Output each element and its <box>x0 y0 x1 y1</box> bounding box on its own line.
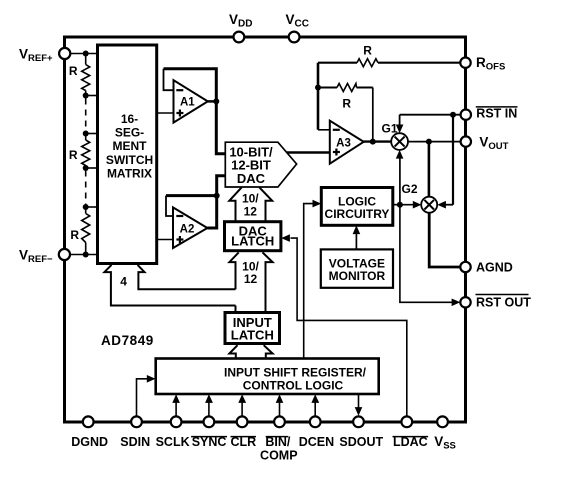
bus arrow matrix 4 MSBs <box>104 265 235 306</box>
resistor R (middle) <box>82 140 90 166</box>
wire A2 + input <box>157 239 173 241</box>
wire G1 to VOUT <box>408 141 461 143</box>
outer boundary box <box>65 37 466 422</box>
svg-text:DCEN: DCEN <box>299 435 334 449</box>
wire SCLK arrow <box>172 394 180 416</box>
wire CLR arrow <box>238 394 246 416</box>
node A3 output <box>370 139 376 145</box>
wire SDOUT arrow <box>355 394 363 416</box>
node dot <box>83 204 89 210</box>
pin VOUT <box>461 136 471 146</box>
svg-text:G1: G1 <box>381 122 397 136</box>
wire DCEN arrow <box>311 394 319 416</box>
svg-text:RST OUT: RST OUT <box>476 295 531 309</box>
svg-text:A1: A1 <box>180 97 195 109</box>
bus arrow DAC latch to DAC (10/12) <box>229 187 272 221</box>
wire logic to G2 and branches <box>393 150 422 209</box>
wire DAC output to A3 <box>287 151 330 154</box>
svg-text:R: R <box>69 148 78 162</box>
node dot bottom of ladder <box>83 252 89 258</box>
svg-text:LATCH: LATCH <box>231 233 274 248</box>
wire ladder stub <box>86 95 98 97</box>
resistor R (top) <box>82 65 90 91</box>
wire voltage monitor to logic <box>353 225 361 249</box>
svg-text:AGND: AGND <box>476 261 513 275</box>
svg-text:LATCH: LATCH <box>231 327 274 342</box>
pin DCEN <box>310 416 321 427</box>
pin AGND <box>460 262 470 272</box>
label LDAC <box>393 435 429 449</box>
pin VDD <box>234 32 245 43</box>
svg-text:R: R <box>342 97 351 111</box>
dashed ladder segment <box>85 99 87 131</box>
pin BIN/COMP <box>274 416 285 427</box>
svg-text:10/: 10/ <box>242 192 259 206</box>
input latch box <box>225 313 280 344</box>
label RST OUT <box>476 295 532 310</box>
wire VREF+ to matrix <box>65 53 98 55</box>
pin ROFS <box>460 58 470 68</box>
svg-text:R: R <box>363 44 372 58</box>
pin VSS <box>437 416 448 427</box>
svg-text:DGND: DGND <box>71 435 108 449</box>
node dot top of ladder <box>83 51 89 57</box>
wire VOUT node down to G2 <box>428 142 431 197</box>
svg-text:MONITOR: MONITOR <box>329 269 386 283</box>
multiplier G2 <box>401 182 437 213</box>
pin SDOUT <box>353 416 364 427</box>
svg-text:MENT: MENT <box>113 139 148 153</box>
label SYNC <box>191 435 227 449</box>
wire A2 feedback loop <box>166 194 217 197</box>
svg-text:SWITCH: SWITCH <box>106 153 153 167</box>
pin VCC <box>289 32 300 43</box>
svg-text:DAC: DAC <box>237 171 266 186</box>
wire A3 feedback vertical <box>317 63 320 130</box>
resistor R (bottom) <box>82 214 90 243</box>
wire A2 output <box>207 176 225 228</box>
op-amp A1 <box>174 80 208 122</box>
pin RST OUT <box>460 297 470 307</box>
svg-text:MATRIX: MATRIX <box>107 166 152 180</box>
pin DGND <box>83 416 94 427</box>
op-amp A2 <box>173 207 207 248</box>
svg-text:COMP: COMP <box>260 448 298 462</box>
voltage monitor box <box>321 249 393 287</box>
svg-text:SDOUT: SDOUT <box>339 435 383 449</box>
wire G2 to AGND <box>429 213 460 268</box>
label BIN/ <box>265 435 291 449</box>
16-segment switch matrix box <box>98 45 157 264</box>
input shift register / control logic box <box>156 359 379 395</box>
label CLR <box>230 435 256 449</box>
svg-text:CONTROL LOGIC: CONTROL LOGIC <box>243 379 344 393</box>
resistor R to ROFS <box>318 44 460 67</box>
pin RST IN <box>461 110 471 120</box>
wire RST IN net <box>396 112 461 209</box>
resistor R feedback <box>318 84 373 142</box>
wire VREF- to matrix <box>64 254 97 256</box>
wire shift register to logic circuitry <box>304 200 322 359</box>
svg-text:A2: A2 <box>180 224 195 236</box>
node A1 output <box>213 98 219 104</box>
wire A3 - input <box>318 129 330 131</box>
pin VREF- <box>59 249 70 260</box>
node VOUT branch <box>426 139 432 145</box>
wire A1 + input <box>157 112 174 114</box>
wire A3 output <box>364 140 392 142</box>
bus arrow input latch to DAC latch (10/12) <box>229 252 272 312</box>
label RST IN <box>476 106 518 120</box>
node A2 output <box>214 193 220 199</box>
svg-text:RST IN: RST IN <box>476 106 517 120</box>
wire A1 output <box>208 100 217 103</box>
wire ladder stub <box>86 167 98 169</box>
svg-text:R: R <box>69 64 78 78</box>
node dot <box>83 131 89 137</box>
svg-text:SDIN: SDIN <box>120 435 150 449</box>
pin SCLK <box>171 416 182 427</box>
wire LDAC to DAC latch <box>281 234 407 416</box>
svg-text:16-: 16- <box>121 112 138 126</box>
DAC latch box <box>225 222 281 251</box>
DAC pentagon 10-bit/12-bit <box>225 142 296 187</box>
multiplier G1 <box>381 122 408 151</box>
node dot <box>83 165 89 171</box>
wire A1 feedback loop <box>164 69 174 91</box>
wire ladder stub <box>86 133 98 135</box>
svg-text:4: 4 <box>120 275 127 289</box>
bus arrow shift register to input latch <box>229 345 272 358</box>
svg-text:A3: A3 <box>336 138 351 150</box>
node dot <box>83 93 89 99</box>
svg-text:G2: G2 <box>401 182 417 196</box>
node feedback <box>315 85 321 91</box>
wire SDIN to shift register <box>137 375 156 416</box>
svg-text:SEG-: SEG- <box>115 126 144 140</box>
pin VREF+ <box>59 48 70 59</box>
svg-text:SCLK: SCLK <box>156 435 190 449</box>
resistor ladder vertical wires <box>85 54 87 255</box>
dashed ladder segment <box>85 171 87 205</box>
svg-text:R: R <box>70 228 79 242</box>
svg-text:12: 12 <box>244 272 258 286</box>
wire ladder stub <box>86 206 98 208</box>
pin LDAC <box>401 416 412 427</box>
svg-text:INPUT SHIFT REGISTER/: INPUT SHIFT REGISTER/ <box>224 365 367 379</box>
pin CLR <box>237 416 248 427</box>
pin SDIN <box>131 416 142 427</box>
svg-text:12: 12 <box>244 205 258 219</box>
svg-text:CIRCUITRY: CIRCUITRY <box>325 207 390 221</box>
op-amp A3 <box>330 121 364 164</box>
svg-text:AD7849: AD7849 <box>101 333 154 348</box>
wire logic node to RST OUT <box>400 205 460 306</box>
pin SYNC <box>204 416 215 427</box>
wire SYNC arrow <box>205 394 213 416</box>
wire BIN/COMP arrow <box>276 394 284 416</box>
logic circuitry box <box>321 188 393 226</box>
